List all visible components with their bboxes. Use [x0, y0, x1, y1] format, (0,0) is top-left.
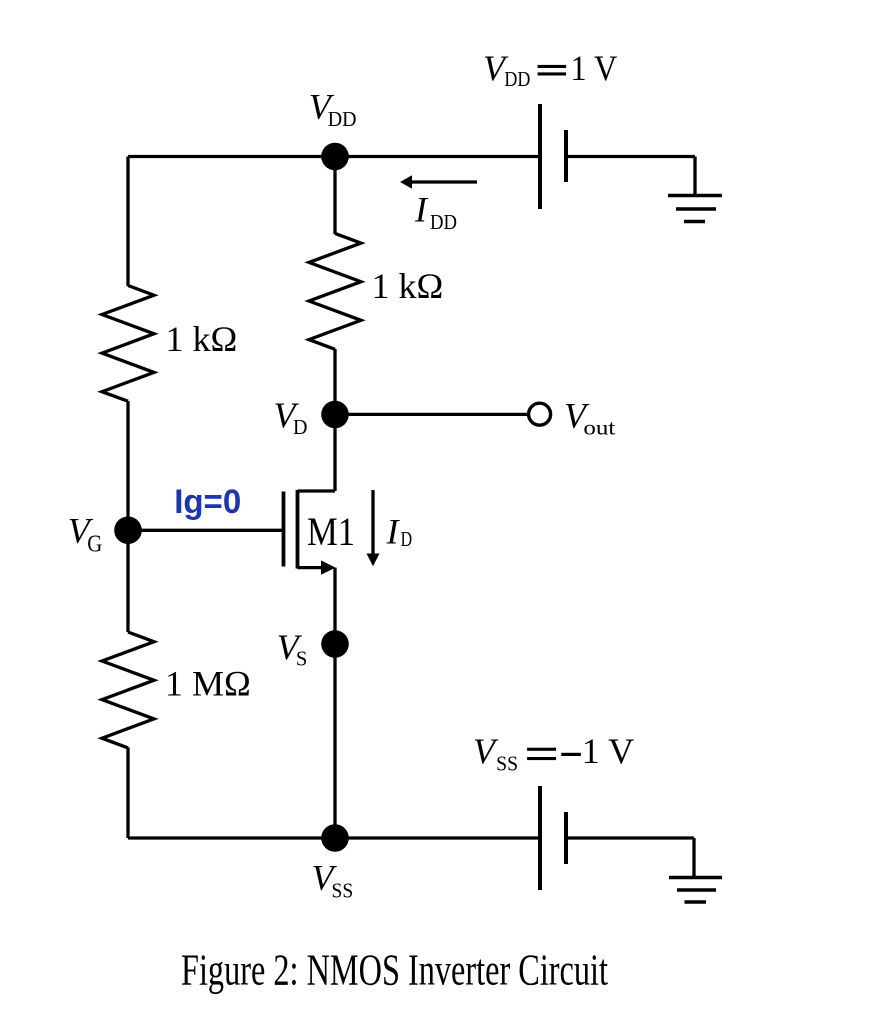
label Vout: [564, 396, 615, 440]
battery V1 top (VDD) long plate: [538, 104, 542, 209]
wire VD to drain: [333, 415, 336, 492]
wire top ground drop: [693, 157, 696, 196]
svg-text:1 V: 1 V: [582, 731, 635, 771]
wire left branch lower: [126, 748, 129, 839]
wire bottom rail left: [128, 836, 540, 839]
svg-text:1 MΩ: 1 MΩ: [165, 664, 251, 704]
svg-text:SS: SS: [332, 879, 354, 903]
svg-text:1 kΩ: 1 kΩ: [166, 319, 238, 359]
arrow ID: [367, 490, 380, 566]
label VD: [274, 395, 308, 439]
svg-text:Ig=0: Ig=0: [174, 483, 241, 521]
ground top right: [668, 196, 722, 222]
node VS: [321, 630, 349, 658]
gate bar: [282, 492, 286, 567]
wire source down: [333, 568, 336, 838]
transistor M1: [284, 490, 336, 569]
label ID: [386, 512, 413, 552]
wire left branch mid: [126, 401, 129, 632]
svg-text:SS: SS: [496, 752, 518, 776]
label VSS node: [312, 858, 354, 903]
wire bottom rail right: [566, 836, 694, 839]
svg-text:1 kΩ: 1 kΩ: [372, 266, 444, 306]
battery V1 top (VDD) short plate: [564, 130, 568, 182]
wire gate: [128, 529, 284, 532]
node VD: [321, 401, 349, 429]
svg-text:G: G: [87, 531, 102, 557]
svg-text:S: S: [296, 647, 308, 671]
wire middle branch upper: [333, 157, 336, 235]
ground bottom right: [669, 878, 722, 903]
label VSS = -1 V: [473, 731, 634, 775]
resistor R1 1 kOhm left: [102, 286, 154, 402]
resistor R2 1 kOhm middle: [309, 233, 361, 349]
resistor R3 1 MOhm: [102, 632, 154, 748]
channel bar: [296, 490, 300, 569]
battery V2 bottom (VSS) long plate: [538, 786, 542, 890]
wire left branch upper: [126, 157, 129, 287]
svg-text:DD: DD: [328, 107, 357, 131]
wire VD to Vout: [335, 413, 528, 416]
label VDD = 1 V: [483, 48, 617, 91]
svg-text:out: out: [583, 416, 615, 440]
label VG: [68, 510, 103, 557]
node VSS: [321, 824, 349, 852]
label VDD node: [309, 87, 357, 131]
svg-text:I: I: [414, 190, 429, 230]
terminal Vout open circle: [529, 403, 551, 425]
node VG: [114, 517, 142, 545]
label IDD: [414, 190, 457, 235]
wire top rail left: [128, 155, 540, 158]
node VDD: [321, 143, 349, 171]
wire top rail right: [566, 155, 695, 158]
label VS: [277, 627, 308, 671]
svg-text:1 V: 1 V: [571, 48, 618, 88]
svg-text:I: I: [386, 512, 401, 552]
arrow IDD: [400, 175, 477, 189]
svg-text:Figure 2: NMOS Inverter Circui: Figure 2: NMOS Inverter Circuit: [181, 946, 608, 995]
svg-text:D: D: [293, 415, 308, 439]
source lead: [298, 566, 324, 569]
svg-text:DD: DD: [430, 210, 457, 234]
drain lead: [298, 489, 336, 492]
svg-text:D: D: [401, 527, 413, 551]
svg-text:DD: DD: [504, 67, 530, 91]
battery V2 bottom (VSS) short plate: [564, 812, 568, 864]
source arrowhead: [321, 560, 336, 574]
wire middle to VD: [333, 349, 336, 415]
svg-text:M1: M1: [307, 509, 355, 554]
wire bottom ground drop: [692, 838, 695, 877]
